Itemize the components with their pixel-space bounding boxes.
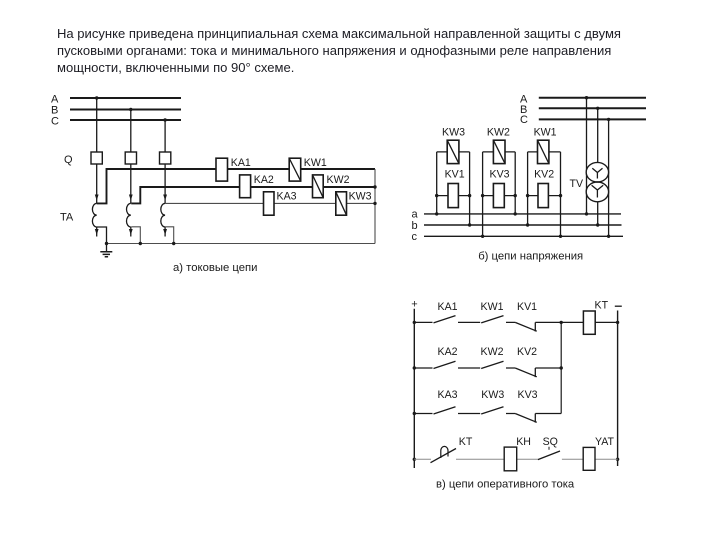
- svg-text:KW1: KW1: [304, 157, 327, 169]
- svg-text:KV3: KV3: [490, 169, 510, 181]
- svg-text:KA2: KA2: [254, 174, 274, 186]
- svg-text:KW1: KW1: [481, 301, 504, 313]
- svg-text:KA1: KA1: [438, 301, 458, 313]
- svg-text:c: c: [412, 231, 418, 243]
- svg-text:YAT: YAT: [595, 436, 615, 448]
- svg-text:KA3: KA3: [277, 191, 297, 203]
- svg-text:Q: Q: [64, 154, 73, 166]
- svg-text:KW3: KW3: [481, 389, 504, 401]
- svg-text:KT: KT: [595, 300, 609, 312]
- svg-text:TA: TA: [60, 212, 74, 224]
- svg-text:KW2: KW2: [487, 127, 510, 139]
- svg-text:C: C: [51, 116, 59, 128]
- svg-text:а) токовые цепи: а) токовые цепи: [173, 262, 257, 274]
- svg-text:KA1: KA1: [231, 157, 251, 169]
- svg-text:KA3: KA3: [438, 389, 458, 401]
- svg-text:C: C: [520, 114, 528, 126]
- svg-text:SQ: SQ: [543, 436, 558, 448]
- svg-text:TV: TV: [570, 178, 584, 190]
- svg-text:KH: KH: [516, 436, 531, 448]
- svg-text:KV2: KV2: [534, 169, 554, 181]
- svg-text:+: +: [411, 299, 417, 311]
- svg-text:б) цепи напряжения: б) цепи напряжения: [478, 250, 583, 262]
- svg-text:a: a: [412, 209, 419, 221]
- svg-text:KA2: KA2: [438, 346, 458, 358]
- svg-text:KT: KT: [459, 436, 473, 448]
- svg-text:KV2: KV2: [517, 346, 537, 358]
- svg-text:KW3: KW3: [442, 127, 465, 139]
- svg-text:KV1: KV1: [517, 301, 537, 313]
- svg-text:KW2: KW2: [327, 174, 350, 186]
- svg-text:KW1: KW1: [534, 127, 557, 139]
- svg-text:KV3: KV3: [518, 389, 538, 401]
- svg-text:b: b: [412, 220, 418, 232]
- svg-text:KW2: KW2: [481, 346, 504, 358]
- svg-text:в) цепи оперативного тока: в) цепи оперативного тока: [436, 478, 575, 490]
- svg-text:KW3: KW3: [349, 191, 372, 203]
- svg-text:KV1: KV1: [445, 169, 465, 181]
